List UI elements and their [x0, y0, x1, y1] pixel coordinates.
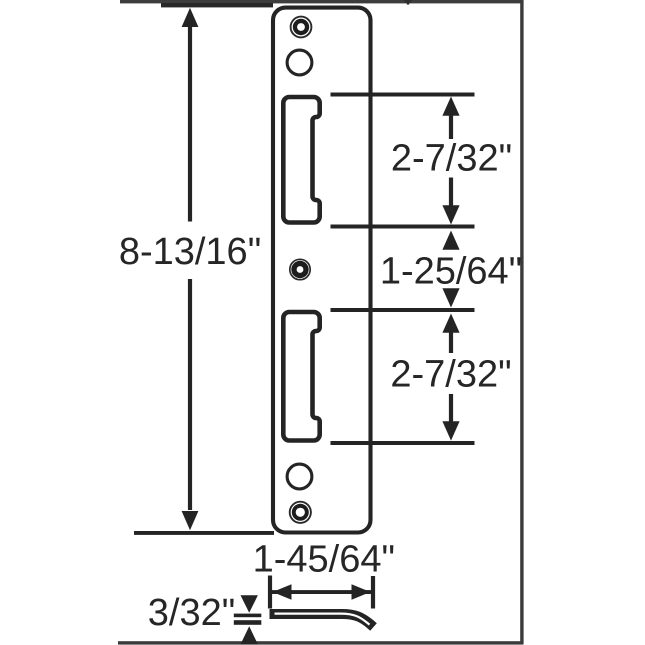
- lower latch slot: [283, 312, 319, 441]
- svg-text:1-25/64": 1-25/64": [380, 251, 522, 293]
- 3/32 dimension down arrow: [241, 595, 258, 613]
- top round hole: [287, 50, 312, 75]
- svg-text:3/32": 3/32": [148, 592, 235, 634]
- svg-text:8-13/16": 8-13/16": [119, 231, 261, 273]
- dimension reference line: top of lower slot: [331, 308, 475, 312]
- svg-text:2-7/32": 2-7/32": [390, 354, 511, 396]
- 1-25/64 dimension arrows: [442, 231, 459, 250]
- dimension reference line: top of upper slot: [331, 93, 475, 97]
- cropped arrow nub at top: [404, 0, 413, 5]
- svg-text:2-7/32": 2-7/32": [391, 138, 512, 180]
- dimension reference line: bottom of lower slot: [331, 441, 475, 445]
- 8-13/16 dimension line lower arrow: [188, 279, 192, 510]
- 2-7/32 lower dimension arrows: [442, 314, 459, 333]
- bottom round hole: [287, 464, 312, 489]
- upper latch slot: [283, 97, 319, 223]
- 1-45/64 double-headed arrow: [272, 590, 371, 594]
- middle screw hole (countersunk): [290, 259, 310, 279]
- 3/32 dimension up arrow: [241, 626, 258, 644]
- 2-7/32 upper dimension arrows: [442, 97, 459, 116]
- 1-45/64 dimension: right tick: [371, 576, 375, 609]
- strike plate outline: [273, 8, 371, 533]
- side profile strip (plate edge view): [270, 614, 374, 627]
- top screw hole (countersunk): [291, 17, 312, 38]
- 3/32 gap tick upper: [234, 614, 261, 618]
- top extension line of 8-13/16 dimension: [161, 3, 273, 7]
- right border line: [520, 0, 523, 644]
- 8-13/16 bottom extension line: [134, 531, 274, 535]
- top border bar (cropped): [120, 0, 523, 3]
- 8-13/16 dimension line upper arrow: [182, 8, 199, 27]
- bottom border line: [118, 641, 524, 644]
- 3/32 gap tick lower: [234, 620, 261, 625]
- 1-45/64 dimension: left tick: [268, 576, 272, 609]
- bottom screw hole (countersunk): [290, 502, 311, 523]
- svg-text:1-45/64": 1-45/64": [253, 539, 395, 581]
- dimension reference line: bottom of upper slot: [331, 225, 475, 229]
